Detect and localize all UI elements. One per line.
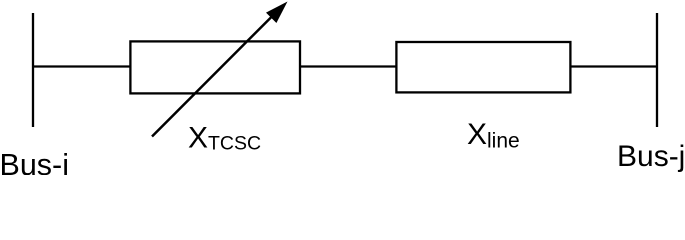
svg-text:XTCSC: XTCSC xyxy=(188,122,261,155)
svg-text:Bus-i: Bus-i xyxy=(0,148,69,175)
svg-text:Bus-j: Bus-j xyxy=(617,140,685,173)
svg-text:Xline: Xline xyxy=(467,118,520,152)
